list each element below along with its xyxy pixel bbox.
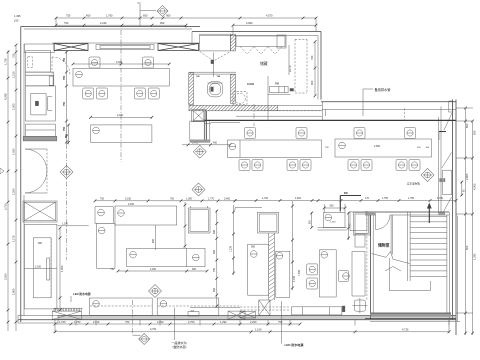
svg-text:1,276: 1,276 bbox=[12, 235, 16, 242]
svg-text:4,701: 4,701 bbox=[150, 327, 157, 331]
storage door and swing bbox=[200, 52, 231, 62]
svg-text:2,260: 2,260 bbox=[150, 268, 157, 271]
left inner dim column bbox=[66, 50, 68, 144]
svg-text:450: 450 bbox=[86, 14, 91, 18]
grid centerline B bbox=[253, 104, 255, 126]
svg-text:3,300: 3,300 bbox=[116, 61, 123, 64]
svg-text:储藏: 储藏 bbox=[260, 61, 268, 66]
svg-text:850: 850 bbox=[152, 238, 155, 243]
partition end column bbox=[259, 300, 270, 316]
drain channel label bbox=[174, 308, 176, 341]
svg-text:600: 600 bbox=[213, 229, 216, 234]
elevation marker D6 bbox=[421, 168, 434, 181]
stool right bbox=[339, 271, 349, 282]
svg-text:600: 600 bbox=[65, 133, 68, 138]
dim row right-mid bbox=[235, 200, 456, 202]
svg-text:4,570: 4,570 bbox=[266, 14, 273, 18]
bottom small box bbox=[188, 312, 199, 317]
small sink bench bbox=[323, 213, 345, 228]
svg-text:2,150: 2,150 bbox=[125, 197, 132, 200]
equip box at stairs bbox=[350, 212, 367, 231]
left counter edge band bbox=[23, 136, 57, 141]
svg-text:950: 950 bbox=[472, 130, 476, 135]
svg-text:750: 750 bbox=[63, 75, 66, 80]
desk 2 bbox=[276, 251, 290, 297]
svg-text:2,805: 2,805 bbox=[465, 173, 469, 180]
svg-text:600: 600 bbox=[213, 249, 216, 254]
equipment square 1 bbox=[188, 208, 210, 233]
bench B bbox=[335, 139, 432, 157]
desk 1 bbox=[248, 244, 269, 295]
svg-text:170: 170 bbox=[365, 197, 370, 200]
svg-text:0.040: 0.040 bbox=[247, 82, 254, 86]
elevation marker D4 bbox=[192, 183, 205, 196]
tall cabinet mid-left bbox=[97, 223, 115, 268]
left lab entry door bbox=[52, 57, 70, 75]
cross table at stair wall bbox=[354, 300, 365, 311]
basin bbox=[235, 93, 246, 104]
left shelf unit bbox=[26, 72, 54, 75]
svg-text:750: 750 bbox=[63, 126, 66, 131]
svg-text:1,500: 1,500 bbox=[298, 269, 301, 276]
left outer wall bbox=[20, 27, 22, 323]
upper-right wall bbox=[321, 101, 456, 103]
left double door bbox=[25, 149, 47, 171]
svg-text:LED 防水电源: LED 防水电源 bbox=[285, 342, 304, 347]
stair treads bbox=[390, 215, 392, 254]
svg-text:1,800: 1,800 bbox=[12, 288, 16, 295]
svg-text:3,200: 3,200 bbox=[4, 273, 8, 280]
elevation marker D7 bbox=[148, 284, 161, 297]
svg-text:900: 900 bbox=[330, 205, 335, 208]
right dimension lines bbox=[465, 108, 467, 335]
top window/column band bbox=[52, 42, 200, 44]
svg-text:备用排水管: 备用排水管 bbox=[375, 87, 391, 92]
svg-text:750: 750 bbox=[170, 197, 175, 200]
svg-text:900: 900 bbox=[38, 242, 43, 245]
right outer wall bbox=[452, 100, 454, 321]
svg-text:2,200: 2,200 bbox=[157, 320, 164, 324]
top wall of left lab bbox=[21, 26, 200, 28]
main lab north wall bbox=[236, 115, 322, 117]
svg-text:1,756: 1,756 bbox=[4, 58, 8, 65]
svg-text:600: 600 bbox=[143, 14, 148, 18]
svg-text:4,700: 4,700 bbox=[293, 275, 296, 282]
storage room outer walls bbox=[192, 31, 321, 33]
svg-text:1,700: 1,700 bbox=[262, 197, 269, 200]
dim row left-mid bbox=[95, 200, 235, 202]
svg-text:4,725: 4,725 bbox=[402, 328, 409, 332]
svg-text:900: 900 bbox=[310, 80, 314, 85]
bottom counter 3 bbox=[240, 306, 290, 308]
desk 4 bbox=[352, 252, 365, 297]
svg-text:吊顶: 吊顶 bbox=[439, 178, 446, 183]
svg-text:4,505: 4,505 bbox=[472, 183, 476, 190]
svg-text:1,790: 1,790 bbox=[106, 14, 113, 18]
stool pair middle bbox=[307, 264, 318, 275]
svg-text:2,170: 2,170 bbox=[288, 65, 292, 72]
equipment box right bbox=[353, 213, 370, 236]
left edge arrow bbox=[0, 168, 4, 174]
svg-text:750: 750 bbox=[64, 21, 69, 25]
svg-text:1,150: 1,150 bbox=[12, 71, 16, 78]
equip box below stairs wall bbox=[355, 234, 365, 247]
svg-text:750: 750 bbox=[213, 267, 216, 272]
svg-text:4,298: 4,298 bbox=[4, 93, 8, 100]
svg-text:1,760: 1,760 bbox=[74, 320, 81, 324]
svg-text:1,292: 1,292 bbox=[472, 253, 476, 260]
svg-text:1,190: 1,190 bbox=[62, 223, 69, 226]
svg-text:760: 760 bbox=[310, 55, 314, 60]
dim col mid2 bbox=[292, 201, 294, 290]
elevation marker D2 bbox=[60, 165, 73, 178]
toilet bbox=[207, 82, 222, 97]
equipment square 2 bbox=[258, 212, 279, 233]
stair-lab partition bbox=[366, 211, 368, 300]
left closet unit bbox=[26, 51, 51, 72]
svg-text:750: 750 bbox=[63, 101, 66, 106]
svg-text:1,100: 1,100 bbox=[255, 328, 262, 332]
bottom counter 1 bbox=[90, 298, 153, 316]
bottom X band bbox=[240, 312, 256, 319]
svg-text:1,150: 1,150 bbox=[59, 320, 66, 324]
stools above bench row bbox=[245, 128, 256, 139]
storage column bbox=[230, 34, 235, 51]
svg-text:750: 750 bbox=[125, 320, 130, 324]
cabinet box left bbox=[95, 207, 113, 224]
svg-text:2,750: 2,750 bbox=[4, 203, 8, 210]
svg-text:750: 750 bbox=[12, 53, 16, 58]
corner counter bbox=[190, 121, 204, 141]
svg-text:900: 900 bbox=[160, 21, 165, 25]
svg-text:900: 900 bbox=[166, 14, 171, 18]
bench3 center leader bbox=[155, 225, 157, 250]
bottom counter 2 bbox=[157, 298, 219, 316]
drain pipe label bbox=[362, 89, 364, 116]
bench 4 bbox=[127, 248, 205, 266]
svg-text:700: 700 bbox=[275, 83, 280, 86]
svg-text:150: 150 bbox=[14, 19, 19, 23]
washer unit bbox=[270, 86, 288, 92]
svg-text:750: 750 bbox=[100, 197, 105, 200]
svg-text:1,750: 1,750 bbox=[382, 197, 389, 200]
bottom wall bbox=[58, 315, 456, 317]
stair landing outline bbox=[388, 258, 390, 291]
stools below bench row bbox=[239, 160, 250, 171]
dim col mid bbox=[216, 210, 218, 308]
stools above bench 1 bbox=[89, 57, 100, 68]
svg-text:1,050: 1,050 bbox=[12, 148, 16, 155]
bottom-right sill box bbox=[228, 311, 245, 319]
top section marker symbol bbox=[139, 2, 141, 27]
washroom dim row bbox=[182, 144, 230, 146]
svg-text:实木窗台板: 实木窗台板 bbox=[407, 182, 420, 186]
svg-text:4,904: 4,904 bbox=[295, 197, 302, 200]
svg-text:2,260: 2,260 bbox=[250, 320, 257, 324]
svg-text:1,495: 1,495 bbox=[14, 14, 21, 18]
bottom section marker bbox=[132, 300, 134, 335]
svg-text:900: 900 bbox=[192, 268, 197, 271]
svg-text:2,700: 2,700 bbox=[188, 320, 195, 324]
svg-text:750: 750 bbox=[278, 320, 283, 324]
svg-text:1,500: 1,500 bbox=[12, 103, 16, 110]
LED label bottom bbox=[281, 301, 283, 344]
grid centerline A bbox=[120, 30, 122, 162]
svg-text:600: 600 bbox=[465, 123, 469, 128]
stair room door arc bbox=[376, 215, 391, 230]
svg-text:1,500: 1,500 bbox=[60, 265, 64, 272]
svg-text:450: 450 bbox=[213, 142, 218, 145]
stair enclosure walls bbox=[370, 212, 372, 319]
svg-text:2,460: 2,460 bbox=[224, 197, 231, 200]
svg-text:2,100: 2,100 bbox=[117, 114, 124, 117]
svg-text:4,750: 4,750 bbox=[437, 197, 444, 200]
svg-text:1,500: 1,500 bbox=[12, 188, 16, 195]
svg-text:1,276: 1,276 bbox=[230, 245, 233, 252]
bench B leader bbox=[439, 131, 446, 133]
svg-text:LED 防水电源: LED 防水电源 bbox=[73, 292, 91, 296]
svg-text:2,240: 2,240 bbox=[100, 21, 107, 25]
left pilaster column bbox=[23, 201, 57, 222]
bench A bbox=[228, 140, 322, 158]
cabinet leader label bbox=[58, 225, 89, 227]
stair understair break lines bbox=[372, 252, 410, 264]
column below washroom bbox=[192, 110, 206, 122]
svg-text:4,960: 4,960 bbox=[246, 21, 253, 25]
lab bench 1 bbox=[73, 68, 169, 86]
svg-text:1,292: 1,292 bbox=[220, 320, 227, 324]
lab bench 2 bbox=[91, 125, 152, 142]
top dimension lines bbox=[56, 17, 316, 19]
svg-text:2,110: 2,110 bbox=[93, 320, 100, 324]
LED label left bbox=[70, 296, 72, 302]
washroom hatched walls bbox=[189, 71, 236, 73]
desk 3 bbox=[319, 250, 336, 297]
elevation marker D3 bbox=[193, 145, 206, 158]
storage dashed cabinet bbox=[294, 39, 296, 93]
left fridge unit bbox=[26, 86, 56, 121]
svg-text:1,150: 1,150 bbox=[330, 221, 336, 223]
stools below bench 1 bbox=[83, 88, 94, 99]
svg-text:(做防水层): (做防水层) bbox=[173, 344, 187, 349]
hatched partition wall bbox=[268, 233, 270, 300]
left tall cabinet L5 bbox=[24, 224, 57, 309]
svg-text:储物室: 储物室 bbox=[378, 242, 390, 247]
svg-text:2,600: 2,600 bbox=[374, 145, 381, 148]
bottom dimension lines bbox=[55, 323, 300, 325]
svg-text:2,150: 2,150 bbox=[128, 203, 135, 206]
storage shelves and wardrobe bbox=[200, 34, 231, 51]
bench 3 bbox=[115, 206, 177, 225]
svg-text:2,100: 2,100 bbox=[35, 266, 42, 269]
svg-text:950: 950 bbox=[251, 246, 256, 249]
svg-text:1,050: 1,050 bbox=[186, 197, 193, 200]
svg-text:600: 600 bbox=[465, 245, 469, 250]
svg-text:1,750: 1,750 bbox=[408, 197, 415, 200]
stair up arrow bbox=[428, 208, 430, 223]
left dimension lines bbox=[7, 50, 9, 331]
svg-text:600: 600 bbox=[213, 287, 216, 292]
dim row under bench4 bbox=[118, 270, 207, 272]
bottom-left sill box bbox=[52, 311, 81, 319]
storage inner dims bbox=[314, 42, 316, 96]
right wall openings bbox=[449, 101, 453, 112]
svg-text:1,770: 1,770 bbox=[208, 197, 215, 200]
svg-text:750: 750 bbox=[66, 14, 71, 18]
left low cabinet bbox=[26, 124, 56, 136]
